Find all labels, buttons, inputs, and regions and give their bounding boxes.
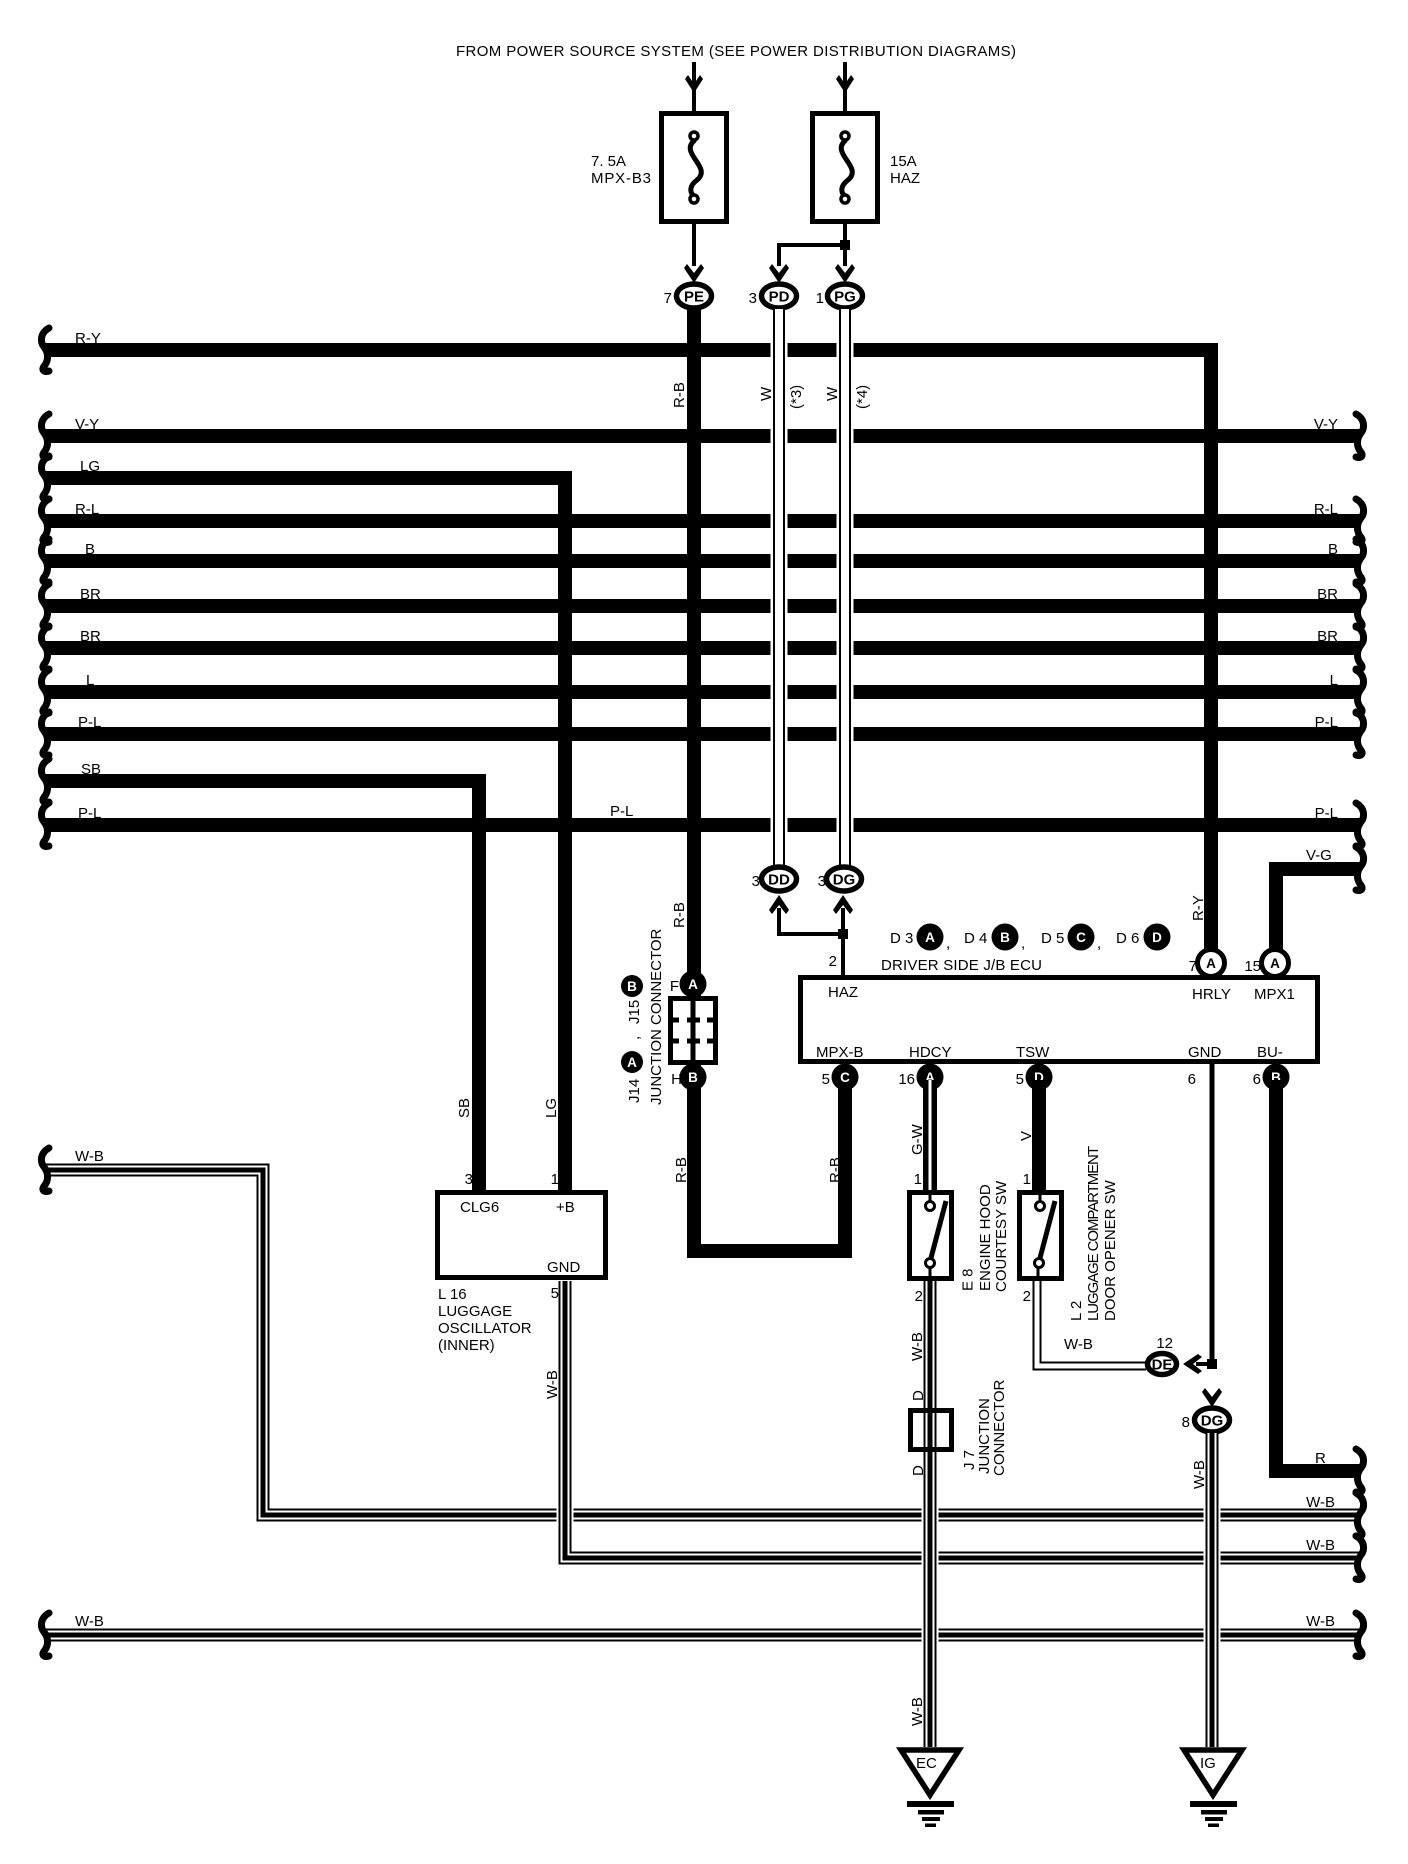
svg-text:L 16: L 16 [438,1286,467,1303]
svg-text:V-Y: V-Y [75,416,99,433]
svg-text:DRIVER SIDE J/B ECU: DRIVER SIDE J/B ECU [881,957,1042,974]
junction dot at HAZ branch [840,240,850,250]
svg-text:7. 5A: 7. 5A [591,153,626,170]
bus wire R-Y y=350 [45,343,1211,357]
svg-text:W-B: W-B [544,1370,561,1399]
svg-text:,: , [1097,935,1101,952]
svg-text:3: 3 [749,290,757,307]
junction connector pin F A [680,971,707,998]
arrow into DG (8) [1202,1388,1222,1407]
svg-text:L 2: L 2 [1068,1301,1085,1321]
ground IG [1184,1750,1242,1795]
svg-text:H: H [671,1071,682,1088]
svg-text:15A: 15A [890,153,917,170]
svg-text:DOOR OPENER SW: DOOR OPENER SW [1102,1179,1119,1321]
wire W-B: L2 pin 2 to connector DE [1037,1281,1146,1366]
svg-text:GND: GND [547,1259,581,1276]
svg-text:SB: SB [81,761,101,778]
bus wire LG y=478 [45,471,565,485]
svg-text:LUGGAGE COMPARTMENT: LUGGAGE COMPARTMENT [1085,1146,1102,1321]
svg-text:7: 7 [664,290,672,307]
svg-text:P-L: P-L [1315,714,1338,731]
svg-text:J14: J14 [626,1079,643,1103]
junction connector J14/J15 box [671,999,716,1063]
ECU pin 5 D (TSW) [1026,1064,1053,1091]
svg-text:G-W: G-W [909,1123,926,1155]
svg-text:D 4: D 4 [964,930,987,947]
svg-text:,: , [626,1036,643,1040]
svg-text:W-B: W-B [75,1613,104,1630]
wire V-G from right edge to ECU pin MPX1 [1276,869,1360,950]
ECU pin 15 A (MPX1) [1262,950,1289,977]
svg-text:A: A [1206,956,1216,971]
L2 LUGGAGE COMPARTMENT DOOR OPENER SW box [1020,1193,1062,1279]
wire W (*4): PG to DG [839,309,851,866]
svg-text:6: 6 [1188,1071,1196,1088]
fuse 7.5A MPX-B3 [662,114,727,222]
bus wire P-L y=825 [45,818,1360,832]
junction connector pin H B [680,1064,707,1091]
connector 3 PD [762,284,797,308]
svg-text:SB: SB [456,1098,473,1118]
svg-text:F: F [670,978,679,995]
svg-text:12: 12 [1156,1335,1173,1352]
svg-text:3: 3 [752,873,760,890]
svg-text:W-B: W-B [1306,1613,1335,1630]
wire R-B: PE down, right, and up to ECU pin MPX-B [694,309,845,1251]
svg-text:PE: PE [684,289,704,306]
svg-text:D 6: D 6 [1116,930,1139,947]
svg-text:1: 1 [816,290,824,307]
svg-text:5: 5 [1016,1071,1024,1088]
svg-text:D 5: D 5 [1041,930,1064,947]
svg-text:CONNECTOR: CONNECTOR [991,1379,1008,1476]
svg-text:B: B [627,979,637,994]
svg-text:R-Y: R-Y [1190,895,1207,921]
svg-text:PD: PD [769,289,790,306]
svg-text:R: R [1315,1450,1326,1467]
svg-text:B: B [1000,930,1010,945]
svg-text:16: 16 [898,1071,915,1088]
wire: ECU pin GND down to junction [1210,1064,1215,1366]
bus wire L y=692 [45,685,1360,699]
svg-text:CLG6: CLG6 [460,1199,499,1216]
svg-text:P-L: P-L [78,805,101,822]
svg-text:V: V [1018,1131,1035,1141]
svg-text:HRLY: HRLY [1192,986,1231,1003]
svg-text:LUGGAGE: LUGGAGE [438,1303,512,1320]
svg-text:5: 5 [551,1285,559,1302]
svg-text:P-L: P-L [1315,805,1338,822]
svg-text:5: 5 [822,1071,830,1088]
svg-text:R-B: R-B [673,1157,690,1183]
connector 12 DE [1148,1354,1177,1375]
wire: feed into fuse HAZ [843,62,847,111]
svg-text:B: B [1328,541,1338,558]
wire W (*3): PD to DD [773,309,785,866]
svg-text:R-Y: R-Y [75,330,101,347]
svg-text:A: A [688,977,698,992]
svg-text:1: 1 [551,1171,559,1188]
svg-text:V-G: V-G [1306,847,1332,864]
svg-text:W-B: W-B [1064,1336,1093,1353]
wire R-Y vertical down to ECU pin HRLY [1204,343,1218,950]
svg-text:HDCY: HDCY [909,1044,952,1061]
svg-text:7: 7 [1189,958,1197,975]
svg-text:EC: EC [916,1755,937,1772]
svg-text:P-L: P-L [610,803,633,820]
svg-text:FROM POWER SOURCE SYSTEM (SEE: FROM POWER SOURCE SYSTEM (SEE POWER DIST… [456,43,1016,60]
svg-text:B: B [688,1070,698,1085]
svg-text:1: 1 [1023,1171,1031,1188]
svg-text:W-B: W-B [909,1332,926,1361]
bus wire B y=561 [45,554,1360,568]
connector 8 DG [1195,1408,1230,1432]
svg-text:W-B: W-B [1306,1537,1335,1554]
wire: feed into fuse MPX-B3 [692,62,696,111]
svg-text:DG: DG [833,872,856,889]
ECU pin 7 A (HRLY) [1198,950,1225,977]
svg-text:R-L: R-L [1314,501,1338,518]
svg-text:+B: +B [556,1199,575,1216]
svg-text:C: C [1076,930,1086,945]
wire SB vertical down to L16 pin 3 [472,774,486,1190]
wire W-B: L16 GND down to second W-B rail [557,1507,574,1523]
svg-text:MPX-B: MPX-B [816,1044,864,1061]
svg-text:V-Y: V-Y [1314,416,1338,433]
junction dot DD/DG [838,929,848,939]
bus wire SB y=781 [45,774,479,788]
svg-text:W: W [758,386,775,401]
wire W-B: left edge to down to first W-B rail [45,1170,1360,1515]
ground EC [901,1750,959,1795]
svg-text:2: 2 [1023,1288,1031,1305]
svg-text:,: , [1021,935,1025,952]
svg-text:1: 1 [914,1171,922,1188]
svg-text:DG: DG [1201,1413,1224,1430]
svg-text:R-L: R-L [75,501,99,518]
svg-text:DD: DD [768,872,790,889]
svg-text:D 3: D 3 [890,930,913,947]
svg-text:MPX-B3: MPX-B3 [591,170,651,187]
crossing gaps for W wires [771,342,788,359]
svg-text:15: 15 [1244,958,1261,975]
svg-text:HAZ: HAZ [828,984,858,1001]
ECU pin 16 A (HDCY) [917,1064,944,1091]
svg-text:C: C [840,1070,850,1085]
connector 3 DD [762,867,797,891]
wire: DD and DG down to ECU pin HAZ [777,908,781,936]
svg-text:W: W [824,386,841,401]
svg-text:D: D [1152,930,1162,945]
wire V: ECU pin TSW to L2 pin 1 [1032,1080,1046,1190]
svg-text:A: A [1270,956,1280,971]
svg-text:R-B: R-B [671,382,688,408]
svg-text:JUNCTION CONNECTOR: JUNCTION CONNECTOR [648,928,665,1105]
svg-text:PG: PG [834,289,856,306]
svg-text:OSCILLATOR: OSCILLATOR [438,1320,532,1337]
svg-text:BR: BR [80,586,101,603]
svg-text:(*4): (*4) [854,385,871,409]
bus wire R-L y=521 [45,514,1360,528]
J7 JUNCTION CONNECTOR box [911,1411,952,1450]
bus wire P-L y=734 [45,727,1360,741]
svg-text:GND: GND [1188,1044,1222,1061]
svg-text:MPX1: MPX1 [1254,986,1295,1003]
svg-text:E 8: E 8 [960,1268,977,1291]
svg-text:D: D [910,1390,927,1401]
E8 ENGINE HOOD COURTESY SW box [910,1193,952,1279]
bus wire V-Y y=436 [45,429,1360,443]
ECU pin 6 B (BU-) [1263,1064,1290,1091]
ECU pin 5 C (MPX-B) [832,1064,859,1091]
svg-text:J15: J15 [626,1000,643,1024]
svg-text:2: 2 [915,1288,923,1305]
wire BU- : ECU pin BU- down and right (R) [1276,1080,1360,1471]
svg-text:BR: BR [1317,628,1338,645]
svg-text:BR: BR [1317,586,1338,603]
svg-text:L: L [86,672,94,689]
svg-text:BR: BR [80,628,101,645]
svg-text:R-B: R-B [827,1157,844,1183]
svg-text:COURTESY SW: COURTESY SW [993,1180,1010,1292]
svg-text:W-B: W-B [1191,1460,1208,1489]
svg-text:,: , [946,935,950,952]
svg-text:D: D [910,1465,927,1476]
wire: fuse MPX-B3 to connector PE [692,221,696,266]
svg-text:W-B: W-B [909,1697,926,1726]
connector 1 PG [828,284,863,308]
wire: fuse HAZ to connectors PD and PG [843,221,847,266]
connector 7 PE [677,284,712,308]
ECU: DRIVER SIDE J/B ECU box [801,978,1318,1062]
svg-text:3: 3 [465,1171,473,1188]
connector 3 DG [827,867,862,891]
svg-text:(INNER): (INNER) [438,1337,495,1354]
svg-text:DE: DE [1152,1357,1173,1374]
svg-text:L: L [1330,672,1338,689]
svg-text:LG: LG [80,458,100,475]
svg-text:2: 2 [829,953,837,970]
svg-text:W-B: W-B [1306,1494,1335,1511]
svg-text:W-B: W-B [75,1148,104,1165]
bus wire BR y=606 [45,599,1360,613]
bus wire BR y=648 [45,641,1360,655]
svg-text:R-B: R-B [671,902,688,928]
wire W-B: E8 pin 2 down through J7 to ground EC [922,1507,939,1523]
svg-text:8: 8 [1182,1414,1190,1431]
svg-text:P-L: P-L [78,714,101,731]
bus wire W-B bottom [45,1629,1360,1642]
svg-text:A: A [627,1055,637,1070]
svg-text:(*3): (*3) [788,385,805,409]
svg-text:A: A [925,930,935,945]
svg-text:TSW: TSW [1016,1044,1050,1061]
svg-text:3: 3 [818,873,826,890]
wire LG vertical down to L16 pin 1 [558,471,572,1190]
L16 LUGGAGE OSCILLATOR box [438,1193,606,1278]
svg-text:ENGINE HOOD: ENGINE HOOD [977,1184,994,1291]
svg-text:HAZ: HAZ [890,170,920,187]
wire W-B: DG down to ground IG [1204,1507,1221,1523]
arrow into DE [1196,1362,1208,1366]
svg-text:6: 6 [1253,1071,1261,1088]
svg-text:B: B [85,541,95,558]
junction dot on GND wire [1207,1359,1217,1369]
svg-text:IG: IG [1200,1755,1216,1772]
wire G-W: ECU pin HDCY to E8 pin 1 [923,1080,937,1190]
svg-text:BU-: BU- [1257,1044,1283,1061]
svg-text:LG: LG [543,1098,560,1118]
fuse 15A HAZ [813,114,878,222]
